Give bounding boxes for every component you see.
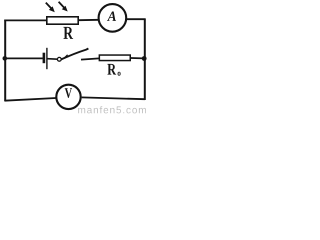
node junction right (142, 56, 147, 61)
wire bottom right (82, 97, 145, 99)
resistor R0 body (99, 55, 130, 61)
wire left vertical (4, 20, 6, 101)
wire battery to switch (48, 58, 58, 61)
wire bottom left (4, 98, 56, 101)
wire switch contact to R0 (81, 58, 99, 59)
wire middle left to battery (5, 57, 43, 59)
label R (63, 27, 73, 39)
wire R0 to right junction (131, 57, 144, 59)
voltmeter V (56, 85, 80, 109)
node junction left (3, 56, 8, 61)
wire right vertical (144, 19, 146, 100)
watermark manfen5.com (78, 106, 146, 113)
light arrow 1 (46, 3, 55, 13)
resistor R (photoresistor body) (47, 17, 78, 24)
ammeter A (99, 4, 127, 32)
label R0 (107, 64, 116, 75)
wire resistor to ammeter (79, 19, 99, 21)
battery cell: short thick negative plate (43, 53, 46, 64)
switch blade (61, 49, 88, 60)
battery cell: long thin positive plate (46, 48, 48, 69)
wire top left horizontal (4, 19, 46, 21)
switch blade heel wedge (61, 54, 68, 60)
wire ammeter to top right corner (127, 18, 146, 20)
light arrow 2 (59, 2, 68, 12)
switch pivot circle (57, 57, 61, 61)
